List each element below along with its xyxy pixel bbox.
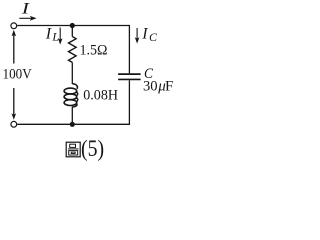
node dot top junction [70,23,75,28]
wire left upper segment [13,32,15,64]
svg-text:C: C [149,30,158,44]
capacitor C top plate [118,73,141,75]
wire left lower segment [13,88,15,118]
svg-text:I: I [45,25,52,42]
arrowhead IC down [135,37,140,43]
inductor loop 3 [64,100,77,106]
inductor loop 1 [64,88,77,94]
inductor right connector 2 [77,98,78,102]
terminal open circle bottom-left [11,121,17,127]
svg-text:100V: 100V [3,67,32,83]
svg-text:L: L [51,29,59,43]
arrow IC line [136,28,138,40]
wire right vertical upper [128,25,130,73]
wire middle bottom [71,107,73,125]
caption glyph tu (figure) [66,142,80,157]
arrowhead 100V down (bottom-left) [12,113,17,119]
wire bottom horizontal [17,123,130,125]
svg-text:F: F [165,79,173,95]
wire right vertical lower [128,80,130,124]
inductor exit curl [72,104,77,107]
wire top horizontal [17,25,129,27]
svg-text:30: 30 [143,79,158,95]
wire middle top [71,26,73,37]
capacitor C bottom plate [118,78,141,80]
svg-text:I: I [20,1,29,18]
arrow I line (top current) [19,17,31,19]
svg-text:0.08H: 0.08H [83,87,118,103]
inductor L 0.08H coil entry curl [72,84,77,89]
wire middle between R and L [71,62,73,84]
node dot bottom junction [70,122,75,127]
arrowhead I right [30,16,37,21]
arrow IL line [59,28,61,41]
inductor loop 2 [64,94,77,100]
arrowhead IL down [58,38,63,44]
inductor right connector 1 [77,92,78,96]
resistor R 1.5ohm zigzag [69,37,77,63]
svg-text:(5): (5) [81,136,104,162]
svg-text:1.5Ω: 1.5Ω [80,43,108,59]
svg-text:I: I [141,25,148,42]
terminal open circle top-left [11,23,17,29]
arrowhead 100V up (top-left) [12,30,17,36]
